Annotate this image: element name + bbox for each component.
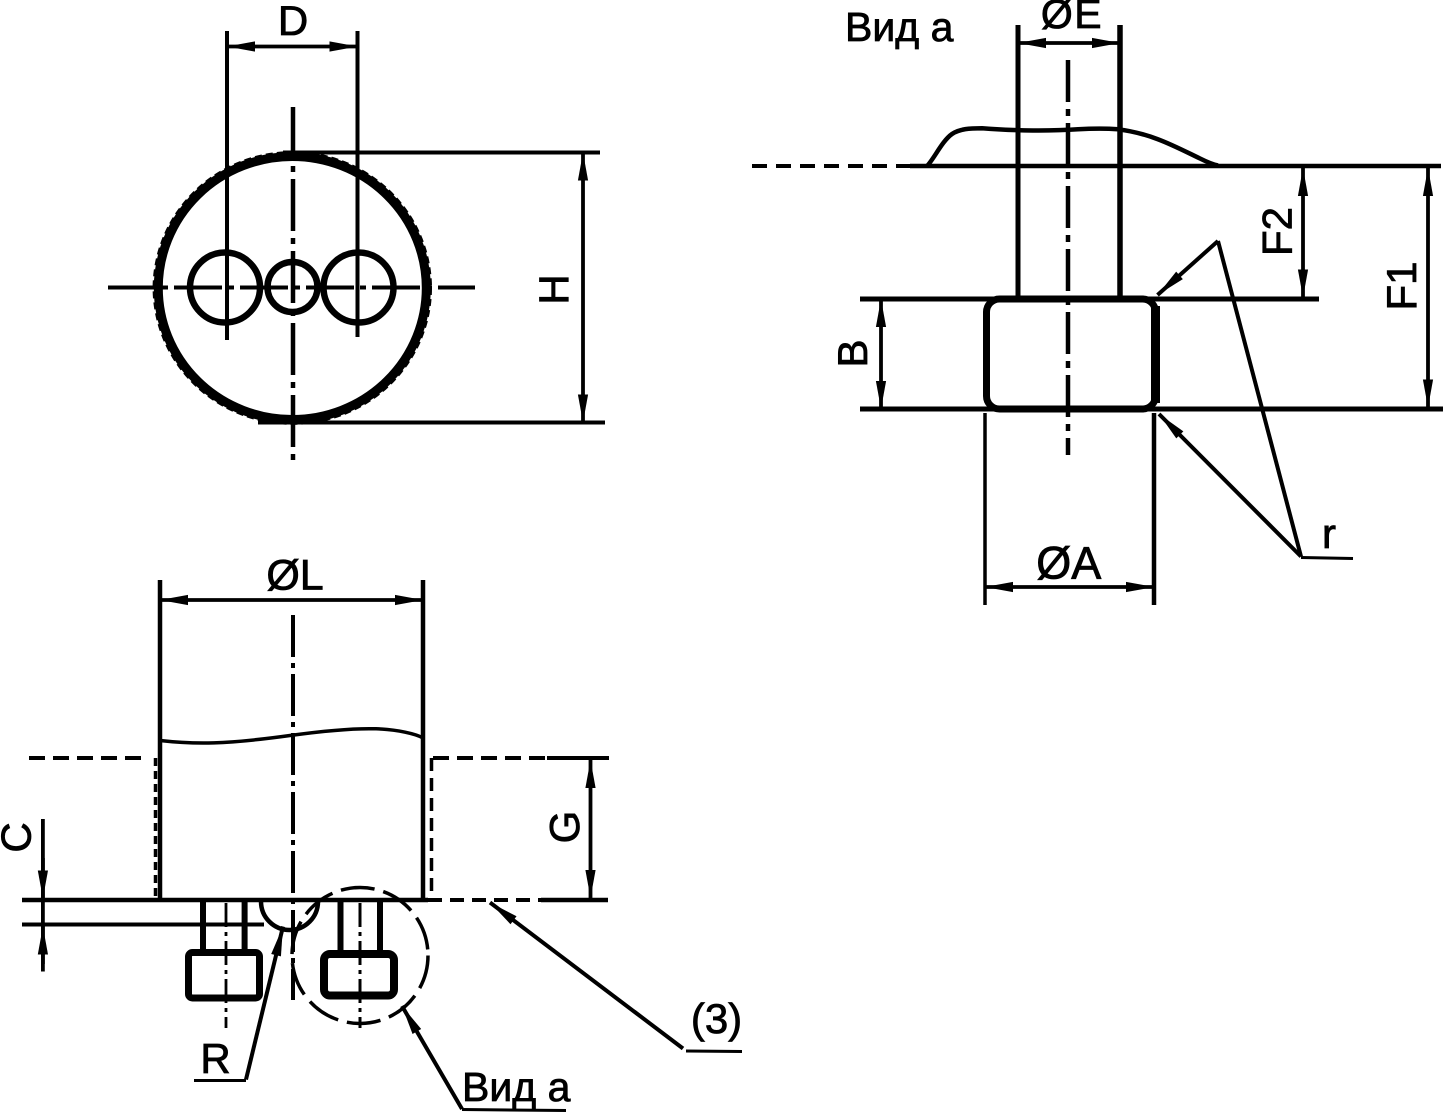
dimension line F2 bbox=[1301, 168, 1305, 298]
body right edge emphasis bbox=[1151, 306, 1160, 403]
center pin centerline bbox=[359, 903, 362, 1028]
leader (3) arrow bbox=[490, 903, 683, 1049]
svg-text:R: R bbox=[200, 1035, 230, 1082]
svg-text:Вид а: Вид а bbox=[845, 4, 954, 50]
svg-text:ØE: ØE bbox=[1041, 0, 1103, 37]
panel line right solid (G extension) bbox=[547, 756, 609, 760]
left pin centerline bbox=[225, 903, 228, 1028]
leader view a arrow bbox=[402, 1006, 462, 1109]
svg-text:r: r bbox=[1322, 510, 1336, 557]
extension line OA left bbox=[983, 413, 987, 605]
panel bottom surface line bbox=[22, 923, 264, 927]
leader R bar bbox=[194, 1079, 246, 1082]
left pin crimp nut bbox=[189, 953, 260, 999]
capacitor can outline (rough rolled edge) bbox=[158, 157, 426, 420]
extension line OA right bbox=[1152, 413, 1157, 605]
center electrode bbox=[268, 262, 318, 312]
dimension line H bbox=[581, 153, 585, 423]
body right side bbox=[421, 580, 426, 899]
dimension line F1 bbox=[1426, 168, 1430, 408]
break wavy line bbox=[160, 729, 423, 743]
svg-text:C: C bbox=[0, 822, 40, 852]
flange dashed line bbox=[752, 164, 910, 168]
dimension line C bbox=[41, 819, 45, 972]
panel top line right end bbox=[541, 898, 608, 903]
extension line H top bbox=[283, 151, 600, 155]
body bottom line / F1 extension bbox=[860, 407, 1443, 412]
center pin crimp nut bbox=[324, 954, 394, 996]
pin centerline bbox=[1066, 60, 1071, 455]
extension line D right bbox=[356, 31, 360, 337]
svg-text:H: H bbox=[531, 274, 578, 304]
C arrow bottom bbox=[41, 927, 45, 965]
svg-text:ØA: ØA bbox=[1036, 538, 1101, 589]
horizontal centerline bbox=[108, 286, 475, 290]
hidden hole edge right bbox=[430, 758, 434, 899]
panel dashed line left bbox=[29, 756, 143, 760]
pin right side bbox=[1117, 25, 1123, 296]
svg-text:ØL: ØL bbox=[266, 552, 323, 600]
svg-text:G: G bbox=[541, 811, 588, 844]
dimension line B bbox=[879, 299, 883, 409]
body top line / F2 extension bbox=[860, 297, 1319, 302]
body centerline bbox=[291, 615, 295, 1000]
dimension line D bbox=[227, 45, 358, 49]
extension line H bottom bbox=[258, 421, 605, 425]
panel top line dashed part bbox=[428, 898, 541, 902]
svg-text:F2: F2 bbox=[1254, 207, 1301, 256]
leader r bar bbox=[1301, 558, 1353, 559]
left pin side lines bbox=[200, 901, 206, 952]
extension line D left bbox=[225, 31, 229, 340]
leader r to top corner bbox=[1158, 241, 1219, 295]
svg-text:Вид а: Вид а bbox=[462, 1064, 571, 1110]
svg-text:D: D bbox=[278, 0, 308, 44]
panel top surface line bbox=[22, 898, 428, 903]
svg-text:(3): (3) bbox=[691, 995, 742, 1042]
leader r to bottom corner bbox=[1159, 414, 1301, 557]
leader (3) bar bbox=[686, 1050, 742, 1054]
center pin side lines bbox=[338, 901, 344, 952]
dimension line OL bbox=[160, 598, 423, 602]
pin hole right bbox=[324, 253, 394, 323]
flange solid line bbox=[910, 164, 1441, 169]
leader R arrow bbox=[246, 927, 283, 1080]
glass meniscus dome bbox=[927, 128, 1218, 166]
svg-text:B: B bbox=[829, 339, 876, 367]
vertical centerline bbox=[291, 107, 296, 467]
solder fillet dome R bbox=[261, 902, 318, 930]
leader r stem bbox=[1218, 241, 1301, 557]
leader view a bar bbox=[462, 1110, 566, 1111]
dimension line OA bbox=[985, 585, 1154, 589]
C arrow top bbox=[41, 858, 45, 899]
pin left side bbox=[1016, 25, 1021, 296]
detail circle (view a) bbox=[292, 888, 428, 1024]
body left side bbox=[158, 580, 163, 899]
panel dashed line right bbox=[433, 756, 547, 760]
pin hole left bbox=[190, 253, 260, 323]
knurl left edge bbox=[154, 758, 158, 899]
svg-text:F1: F1 bbox=[1378, 261, 1425, 310]
dimension line G bbox=[589, 760, 593, 898]
terminal body (rounded square) bbox=[987, 299, 1156, 409]
dimension line OE bbox=[1018, 41, 1120, 45]
